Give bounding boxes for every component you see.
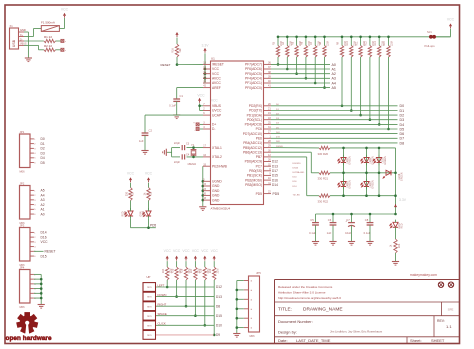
svg-text:VCC: VCC xyxy=(127,172,135,176)
svg-text:ATMEGA32U4: ATMEGA32U4 xyxy=(211,206,231,210)
svg-text:GRN: GRN xyxy=(140,211,143,217)
wire xyxy=(369,214,371,223)
svg-text:TITLE:: TITLE: xyxy=(278,307,292,312)
node A5 xyxy=(41,189,45,193)
svg-text:A0: A0 xyxy=(41,212,45,216)
svg-text:A4: A4 xyxy=(41,193,45,197)
power VCC xyxy=(197,94,205,103)
wire xyxy=(271,68,330,70)
label UP xyxy=(147,275,151,279)
wire xyxy=(167,152,180,157)
wire xyxy=(177,88,203,99)
svg-text:A4: A4 xyxy=(332,81,336,85)
resistor R17 330 xyxy=(126,183,135,201)
svg-text:XTAL2: XTAL2 xyxy=(212,155,222,159)
svg-text:R26: R26 xyxy=(181,268,184,273)
resistor R3 22M xyxy=(273,37,284,57)
junction xyxy=(175,295,178,298)
svg-text:GREEN: GREEN xyxy=(349,180,352,189)
wire xyxy=(388,57,390,129)
svg-text:D12: D12 xyxy=(272,160,278,164)
svg-text:D15: D15 xyxy=(41,254,47,258)
design by xyxy=(278,330,383,335)
svg-text:PD6(ADC9): PD6(ADC9) xyxy=(245,160,262,164)
wire xyxy=(296,57,298,74)
svg-text:R11: R11 xyxy=(355,41,358,46)
wire rail xyxy=(316,213,396,215)
LED LED4 GREEN xyxy=(361,179,375,189)
svg-text:22M: 22M xyxy=(327,41,330,46)
wire xyxy=(343,148,345,196)
junction xyxy=(204,324,207,327)
svg-text:D3: D3 xyxy=(400,118,405,122)
svg-text:C7: C7 xyxy=(346,218,350,222)
label CLICK xyxy=(158,322,166,326)
resistor R1 xyxy=(44,35,56,43)
svg-text:3.3V: 3.3V xyxy=(202,44,210,48)
svg-text:mm: mm xyxy=(147,315,151,318)
wire xyxy=(144,135,146,150)
svg-text:JP1: JP1 xyxy=(20,130,25,134)
junction xyxy=(295,36,298,75)
wire xyxy=(185,280,187,306)
power VCC xyxy=(211,249,219,260)
wire xyxy=(350,57,352,111)
capacitor C7 10uF xyxy=(345,218,355,235)
junction xyxy=(236,289,239,329)
svg-text:UVCC: UVCC xyxy=(212,109,222,113)
node D3 xyxy=(41,151,45,155)
node D1 xyxy=(400,109,405,113)
resistor R28 22M xyxy=(203,261,206,280)
junction xyxy=(369,36,372,121)
power VCC xyxy=(182,249,190,260)
junction xyxy=(286,36,289,71)
power VCC xyxy=(164,249,172,260)
wire xyxy=(156,296,214,298)
ground xyxy=(366,242,373,246)
node D14 xyxy=(41,231,47,235)
resistor R6 22M xyxy=(301,37,312,57)
open hardware logo xyxy=(16,312,38,334)
node A3 xyxy=(41,198,45,202)
svg-text:A1: A1 xyxy=(41,208,45,212)
svg-text:REV:: REV: xyxy=(437,319,445,323)
LED LED2 GREEN xyxy=(361,155,375,165)
svg-text:R27: R27 xyxy=(190,268,193,273)
wire xyxy=(332,225,334,241)
wire xyxy=(156,324,214,326)
svg-text:D7: D7 xyxy=(400,137,405,141)
resistor R21 330 xyxy=(318,171,331,181)
wire xyxy=(59,18,64,29)
svg-text:JP2: JP2 xyxy=(20,182,25,186)
junction xyxy=(40,278,43,300)
junction xyxy=(192,146,195,158)
junction xyxy=(323,36,326,89)
node D2 xyxy=(400,114,405,118)
junction xyxy=(314,36,317,85)
svg-text:D13: D13 xyxy=(216,295,222,299)
junction xyxy=(350,213,353,216)
svg-text:R10: R10 xyxy=(346,41,349,46)
CC icons xyxy=(438,282,453,287)
svg-text:R18: R18 xyxy=(150,191,153,196)
node D2 xyxy=(41,147,45,151)
svg-text:SHEET: SHEET xyxy=(431,338,445,343)
capacitor C8 0.1uF xyxy=(364,218,374,235)
svg-text:16MHz: 16MHz xyxy=(187,162,196,166)
svg-text:-: - xyxy=(194,130,195,133)
connector JP2 xyxy=(20,182,37,226)
wire xyxy=(200,103,203,110)
wire xyxy=(166,280,168,287)
svg-text:Date:: Date: xyxy=(278,338,288,343)
connector JP1 xyxy=(20,130,37,174)
power VCC xyxy=(201,249,209,260)
svg-text:Y1: Y1 xyxy=(191,143,195,147)
svg-text:1uF: 1uF xyxy=(139,139,144,143)
labels xyxy=(162,268,220,273)
svg-text:UCAP: UCAP xyxy=(212,113,222,117)
svg-text:X1: X1 xyxy=(10,24,14,28)
svg-text:JP4: JP4 xyxy=(20,266,25,270)
resistor R8 22M xyxy=(319,37,330,57)
wire xyxy=(395,230,397,239)
svg-text:PD3(TX): PD3(TX) xyxy=(249,109,262,113)
power VCC xyxy=(145,172,153,183)
svg-text:mm: mm xyxy=(147,286,151,289)
svg-text:VBUS: VBUS xyxy=(212,104,222,108)
svg-text:PB1(SCK): PB1(SCK) xyxy=(247,174,262,178)
wire xyxy=(330,195,396,197)
svg-text:R29: R29 xyxy=(209,268,212,273)
wire xyxy=(156,305,214,307)
wire xyxy=(271,114,398,116)
svg-text:D0: D0 xyxy=(400,104,405,108)
svg-text:R14: R14 xyxy=(383,41,386,46)
terminal D- xyxy=(61,48,66,52)
wire xyxy=(176,101,178,114)
svg-text:PF5(ADC5): PF5(ADC5) xyxy=(245,72,262,76)
label SPACE xyxy=(158,312,167,316)
terminal D+ xyxy=(193,121,199,126)
svg-text:D10: D10 xyxy=(216,324,222,328)
svg-text:A3: A3 xyxy=(332,77,336,81)
wire xyxy=(172,148,180,157)
wire xyxy=(24,29,41,37)
svg-text:R23: R23 xyxy=(398,243,401,248)
wire xyxy=(56,49,61,51)
resistor R4 22M xyxy=(282,37,293,57)
svg-text:mm: mm xyxy=(147,305,151,308)
wire xyxy=(177,63,203,65)
svg-text:RESET: RESET xyxy=(45,250,56,254)
wire xyxy=(271,147,319,149)
svg-text:A3: A3 xyxy=(41,198,45,202)
ground xyxy=(233,334,240,338)
node RESET xyxy=(160,63,178,67)
svg-text:UGND: UGND xyxy=(212,180,222,184)
svg-text:DS2420: DS2420 xyxy=(293,163,302,165)
svg-text:VCC: VCC xyxy=(192,249,200,253)
crystal Y1 16MHz xyxy=(187,143,196,166)
svg-text:D16: D16 xyxy=(41,235,47,239)
terminal D+ xyxy=(61,39,66,43)
resistor R20 330 xyxy=(318,146,331,156)
svg-text:DS34: DS34 xyxy=(293,168,299,170)
wire xyxy=(395,148,397,214)
touch pad CLICK xyxy=(143,321,156,330)
svg-text:PD2(RX): PD2(RX) xyxy=(249,104,262,108)
svg-text:Document Number:: Document Number: xyxy=(278,319,313,324)
wire xyxy=(271,123,398,125)
wire xyxy=(271,157,319,196)
svg-text:R13: R13 xyxy=(374,41,377,46)
svg-text:VCC: VCC xyxy=(212,67,220,71)
wire xyxy=(200,124,203,129)
svg-text:RED: RED xyxy=(401,223,404,228)
wire xyxy=(315,225,317,241)
svg-text:D-: D- xyxy=(212,127,215,131)
node D8 xyxy=(400,141,405,145)
LED LED8 RED xyxy=(122,208,134,218)
node D5 xyxy=(41,161,45,165)
svg-text:Jim Lindblom, Jay Silver, Eric: Jim Lindblom, Jay Silver, Eric Rosenbaum xyxy=(330,330,383,334)
node A4 xyxy=(332,81,336,85)
power 3.3V xyxy=(394,198,407,207)
svg-text:XTAL1: XTAL1 xyxy=(212,146,222,150)
LED LED1 GREEN xyxy=(338,155,352,165)
svg-text:D13: D13 xyxy=(272,164,278,168)
node A2 xyxy=(332,72,336,76)
wire xyxy=(187,147,204,149)
wire xyxy=(271,77,330,79)
wire xyxy=(130,219,132,228)
capacitor C3 22pF xyxy=(174,141,190,150)
power VCC xyxy=(173,249,181,260)
svg-text:mm: mm xyxy=(147,324,151,327)
svg-text:C2: C2 xyxy=(149,129,153,133)
wire xyxy=(204,280,206,325)
resistor R14 22M xyxy=(383,37,394,57)
ground xyxy=(392,262,399,266)
svg-text:!RESET: !RESET xyxy=(212,63,224,67)
svg-text:D4: D4 xyxy=(400,123,405,127)
node A1 xyxy=(332,67,336,71)
labels xyxy=(272,160,278,187)
capacitor C6 1uF xyxy=(327,218,337,235)
wire xyxy=(34,250,44,252)
svg-text:D14: D14 xyxy=(41,231,47,235)
svg-text:PF6(ADC6): PF6(ADC6) xyxy=(245,67,262,71)
node D0 xyxy=(41,137,45,141)
svg-text:C1: C1 xyxy=(180,94,184,98)
svg-text:C8: C8 xyxy=(365,218,369,222)
wire xyxy=(271,87,330,89)
node PD5 xyxy=(150,223,156,227)
wire xyxy=(378,57,380,124)
wire xyxy=(156,334,214,336)
wire xyxy=(176,280,178,297)
svg-text:JP5: JP5 xyxy=(256,271,261,275)
wire xyxy=(286,57,288,69)
svg-text:A1: A1 xyxy=(332,67,336,71)
junction xyxy=(305,36,308,80)
title text xyxy=(278,307,343,313)
wire xyxy=(131,227,156,229)
wire xyxy=(332,214,334,223)
wire xyxy=(237,281,244,334)
wire xyxy=(271,82,330,84)
wire xyxy=(436,29,451,37)
svg-text:AVCC: AVCC xyxy=(212,77,222,81)
svg-text:DRAWING_NAME: DRAWING_NAME xyxy=(303,307,343,313)
wire xyxy=(330,147,396,149)
junction xyxy=(365,147,368,197)
wire xyxy=(156,286,214,288)
svg-text:PD1(SDA): PD1(SDA) xyxy=(247,113,262,117)
wire xyxy=(187,156,204,158)
ground xyxy=(329,242,336,246)
junction xyxy=(394,172,397,198)
wire xyxy=(271,152,319,173)
svg-text:D8: D8 xyxy=(400,141,405,145)
svg-text:D-: D- xyxy=(20,38,23,41)
wire xyxy=(369,225,371,241)
junction xyxy=(350,36,353,112)
touch pad RIGHT xyxy=(143,302,156,311)
touch pad LEFT xyxy=(143,283,156,292)
svg-text:GREEN: GREEN xyxy=(349,156,352,165)
connector JP3 xyxy=(20,224,37,268)
svg-text:GREEN: GREEN xyxy=(372,180,375,189)
svg-text:1.1: 1.1 xyxy=(446,324,452,329)
svg-text:D12: D12 xyxy=(216,285,222,289)
node D0 xyxy=(400,104,405,108)
wire xyxy=(395,253,397,261)
label open hardware xyxy=(6,335,52,342)
node VCC xyxy=(41,240,49,244)
junction xyxy=(378,147,381,197)
svg-text:D9/GB: D9/GB xyxy=(276,146,283,148)
power 3.3V xyxy=(202,44,210,53)
node D16 xyxy=(41,235,47,239)
ground xyxy=(141,151,148,155)
svg-text:VCC: VCC xyxy=(61,8,69,12)
wire bus xyxy=(278,36,451,38)
svg-text:D2: D2 xyxy=(41,147,45,151)
svg-text:GND: GND xyxy=(212,194,220,198)
svg-text:R12: R12 xyxy=(365,41,368,46)
wire xyxy=(271,105,398,107)
svg-text:D4: D4 xyxy=(41,156,45,160)
ground xyxy=(25,58,32,62)
svg-text:GND: GND xyxy=(212,189,220,193)
wire xyxy=(271,73,330,75)
svg-text:330 R20: 330 R20 xyxy=(318,152,329,156)
fuse F1 xyxy=(41,21,59,32)
label RIGHT xyxy=(158,303,167,307)
node D7 xyxy=(400,137,405,141)
wire xyxy=(203,53,205,83)
wire xyxy=(176,38,178,45)
svg-text:Released under the Creative Co: Released under the Creative Commons xyxy=(278,285,333,289)
svg-text:A5: A5 xyxy=(41,189,45,193)
wire xyxy=(145,115,203,133)
wire xyxy=(271,119,398,121)
svg-text:LAST_DATE_TIME: LAST_DATE_TIME xyxy=(296,338,331,343)
junction xyxy=(277,36,280,66)
svg-text:open hardware: open hardware xyxy=(6,335,52,342)
wire xyxy=(24,32,28,58)
solder jumper SJ1 xyxy=(425,30,437,48)
wire xyxy=(271,142,398,144)
svg-text:VCC: VCC xyxy=(211,249,219,253)
doc number xyxy=(278,319,452,329)
labels xyxy=(293,163,305,197)
svg-text:AVCC: AVCC xyxy=(212,81,222,85)
wire xyxy=(341,57,343,106)
svg-text:D16: D16 xyxy=(272,178,278,182)
svg-text:D2: D2 xyxy=(400,114,405,118)
junction xyxy=(198,105,201,108)
svg-text:PB7: PB7 xyxy=(256,155,262,159)
svg-text:A0: A0 xyxy=(332,63,336,67)
svg-text:1uF: 1uF xyxy=(327,231,332,235)
svg-text:D6: D6 xyxy=(400,132,405,136)
capacitor C4 22pF xyxy=(174,153,190,164)
svg-text:22pF: 22pF xyxy=(174,141,180,145)
resistor R25 22M xyxy=(175,261,178,280)
svg-text:PD5: PD5 xyxy=(256,192,263,196)
wire xyxy=(24,45,44,49)
svg-text:PF7(ADC7): PF7(ADC7) xyxy=(245,63,262,67)
svg-text:A2: A2 xyxy=(41,203,45,207)
svg-text:330: 330 xyxy=(126,191,129,196)
svg-text:PD4(ADC8): PD4(ADC8) xyxy=(245,123,262,127)
svg-text:D15: D15 xyxy=(272,174,278,178)
label xyxy=(276,146,283,148)
wire xyxy=(271,63,330,65)
ground xyxy=(173,115,180,119)
junction xyxy=(213,334,216,337)
terminal D- xyxy=(194,128,199,133)
svg-text:PD5: PD5 xyxy=(150,223,156,227)
node D4 xyxy=(400,123,405,127)
svg-text:PD7(ADC10): PD7(ADC10) xyxy=(243,132,262,136)
node D6 xyxy=(400,132,405,136)
wire xyxy=(351,225,353,241)
junction xyxy=(204,68,207,80)
wire xyxy=(194,280,196,316)
svg-text:Design by:: Design by: xyxy=(278,330,297,335)
svg-text:A5: A5 xyxy=(332,86,336,90)
svg-text:22M: 22M xyxy=(391,41,394,46)
svg-text:R24: R24 xyxy=(162,268,165,273)
label DOWN xyxy=(158,293,167,297)
svg-text:PE2/HWB: PE2/HWB xyxy=(212,164,228,168)
svg-text:330 R21: 330 R21 xyxy=(318,177,329,181)
node D15 xyxy=(41,254,47,258)
svg-text:M06: M06 xyxy=(250,334,256,338)
svg-text:C5: C5 xyxy=(310,218,314,222)
capacitor C1 0.1uF xyxy=(169,94,183,108)
svg-text:Attribution Share-Alike 3.0 Li: Attribution Share-Alike 3.0 License xyxy=(278,291,326,295)
svg-text:PB0(SS): PB0(SS) xyxy=(249,169,262,173)
ground xyxy=(163,149,167,156)
svg-text:VCC: VCC xyxy=(173,249,181,253)
